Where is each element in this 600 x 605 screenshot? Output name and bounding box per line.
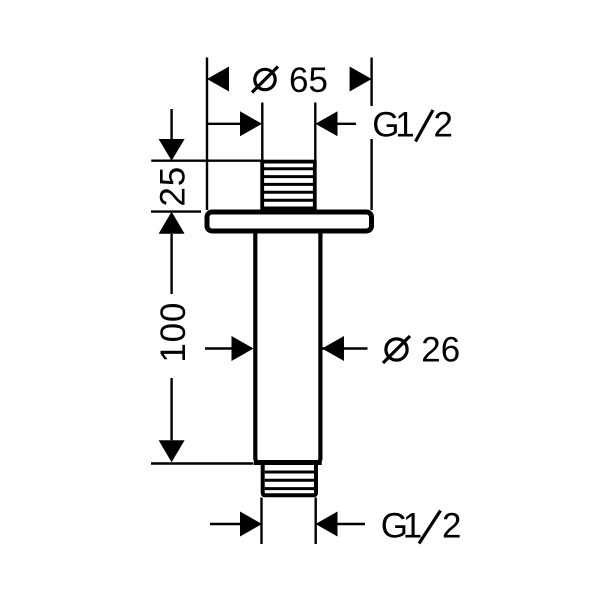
- svg-text:100: 100: [154, 302, 193, 363]
- svg-text:2: 2: [442, 507, 461, 546]
- svg-text:65: 65: [289, 61, 328, 100]
- svg-text:1: 1: [395, 106, 414, 145]
- svg-text:26: 26: [421, 331, 460, 370]
- svg-text:25: 25: [154, 166, 193, 207]
- svg-text:2: 2: [434, 106, 453, 145]
- svg-text:1: 1: [403, 507, 422, 546]
